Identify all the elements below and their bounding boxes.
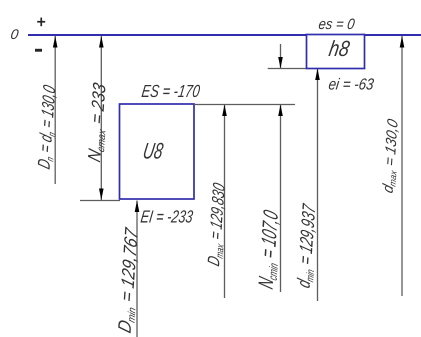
dimension line Ncmax = 233 xyxy=(100,36,102,200)
dimension line Dn = dn = 130,0 xyxy=(54,36,56,184)
zero line (nominal size line) xyxy=(28,34,421,36)
extension line at EI level xyxy=(80,200,120,202)
dimension line Dmax = 129,830 xyxy=(224,105,226,299)
arrowhead up at ES line for Ncmin xyxy=(278,105,283,117)
dimension line Ncmin lower segment xyxy=(280,105,282,293)
extension line at ES level xyxy=(194,104,295,106)
label 0 (zero line mark) xyxy=(10,26,20,42)
label h8 xyxy=(327,38,352,62)
arrowhead down at EI line for Ncmax xyxy=(99,189,104,201)
tolerance zone box U8 (hole) xyxy=(120,104,195,199)
dimension line dmin = 129,937 xyxy=(317,69,319,302)
svg-text:ei = -63: ei = -63 xyxy=(327,77,375,94)
plus sign above zero line xyxy=(37,21,45,23)
svg-text:ES = -170: ES = -170 xyxy=(140,82,201,101)
tolerance zone box h8 (shaft) xyxy=(307,35,365,69)
label ES = -170 xyxy=(140,82,201,101)
label ei = -63 xyxy=(327,77,375,94)
arrowhead up at zero line for Dn xyxy=(53,36,58,48)
arrowhead up at ES line for Dmax xyxy=(222,105,227,117)
minus sign below zero line xyxy=(35,49,42,52)
extension line at ei level xyxy=(268,68,307,70)
label es = 0 xyxy=(318,15,356,32)
dimension line Dmin = 129,767 xyxy=(136,201,138,337)
label EI = -233 xyxy=(139,208,194,227)
label U8 xyxy=(141,139,165,164)
dimension line Ncmin upper segment with down arrow at ei level xyxy=(280,44,282,69)
dimension line dmax = 130,0 xyxy=(401,36,403,296)
arrowhead up at ei line for dmin xyxy=(315,69,320,81)
arrowhead up at zero line for dmax xyxy=(400,36,405,48)
arrowhead up at box bottom for Dmin xyxy=(135,201,140,213)
arrowhead up at zero line for Ncmax xyxy=(99,36,104,48)
svg-text:EI = -233: EI = -233 xyxy=(139,208,194,227)
svg-text:es = 0: es = 0 xyxy=(318,15,356,32)
